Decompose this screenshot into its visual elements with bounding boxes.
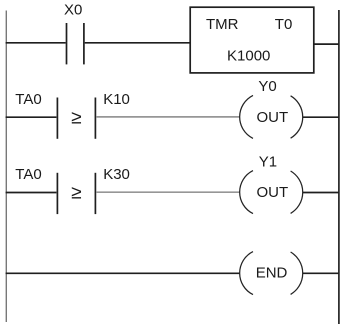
svg-text:Y1: Y1 [259, 153, 277, 170]
svg-text:TA0: TA0 [15, 91, 41, 108]
svg-text:K30: K30 [103, 166, 130, 183]
svg-text:T0: T0 [275, 16, 293, 33]
svg-text:≥: ≥ [71, 108, 81, 129]
svg-text:TMR: TMR [206, 16, 239, 33]
svg-text:OUT: OUT [257, 109, 289, 126]
svg-text:OUT: OUT [257, 184, 289, 201]
svg-text:K1000: K1000 [227, 48, 270, 65]
svg-text:K10: K10 [103, 91, 130, 108]
svg-text:TA0: TA0 [15, 166, 41, 183]
svg-text:X0: X0 [64, 2, 82, 19]
svg-text:END: END [256, 264, 288, 281]
svg-text:Y0: Y0 [258, 78, 276, 95]
svg-text:≥: ≥ [71, 183, 81, 204]
